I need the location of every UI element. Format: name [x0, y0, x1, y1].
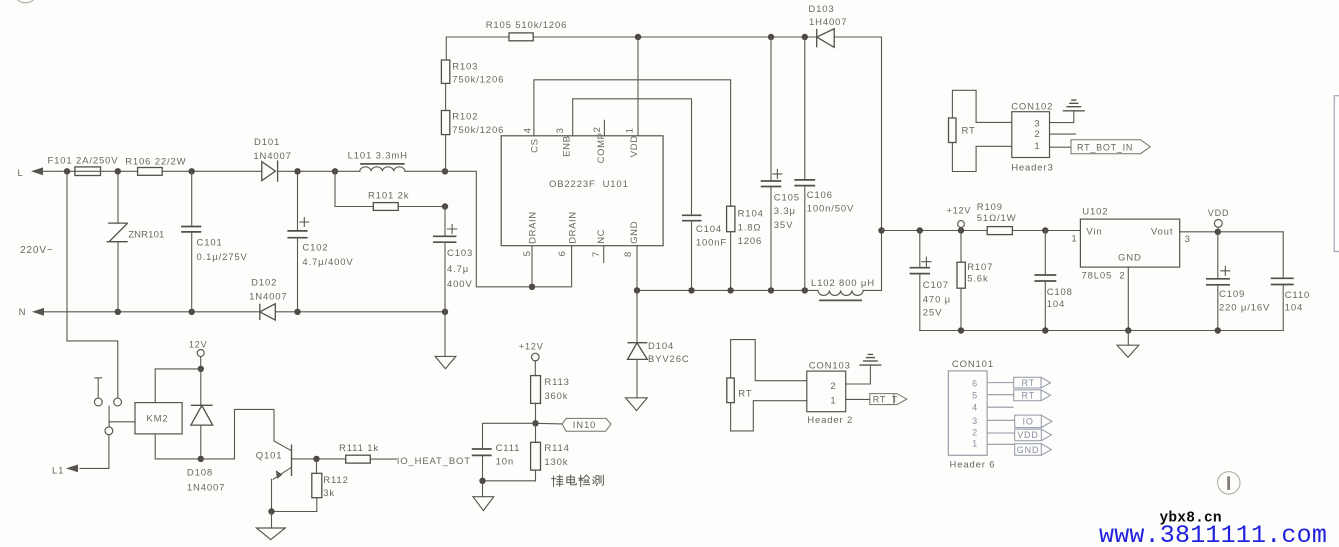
fuse F101 — [75, 167, 101, 176]
svg-text:220V~: 220V~ — [20, 245, 53, 256]
svg-text:R111 1k: R111 1k — [339, 443, 379, 454]
junction bus/pin8-D104 — [634, 287, 640, 293]
svg-text:360k: 360k — [544, 391, 568, 402]
resistor R103 750k/1206 — [441, 60, 449, 83]
svg-text:1: 1 — [1071, 233, 1077, 244]
svg-text:1N4007: 1N4007 — [187, 482, 225, 493]
svg-text:750k/1206: 750k/1206 — [452, 75, 504, 86]
svg-text:R101 2k: R101 2k — [368, 191, 409, 202]
right margin bracket — [1334, 96, 1339, 252]
junction D108 anode node — [198, 456, 204, 462]
svg-text:R114: R114 — [544, 443, 569, 454]
svg-text:R105 510k/1206: R105 510k/1206 — [486, 20, 568, 31]
switch fixed contact right — [114, 398, 122, 406]
junction N/ZNR101 — [115, 309, 121, 315]
resistor R112 3k — [316, 459, 318, 473]
svg-text:CON101: CON101 — [952, 359, 994, 370]
svg-text:DRAIN: DRAIN — [528, 211, 539, 244]
svg-text:1H4007: 1H4007 — [809, 17, 847, 28]
svg-text:C102: C102 — [302, 243, 328, 254]
op-amp U102 78L05 body — [1080, 219, 1179, 267]
svg-text:1N4007: 1N4007 — [253, 151, 291, 162]
svg-text:GND: GND — [1118, 253, 1142, 264]
svg-text:F101 2A/250V: F101 2A/250V — [48, 156, 119, 167]
svg-text:C111: C111 — [496, 443, 521, 454]
ground below C103 — [435, 356, 456, 368]
wire KM2 bottom — [155, 434, 201, 459]
resistor R111 1k — [346, 455, 371, 463]
capacitor C102 4.7u/400V — [297, 171, 299, 231]
net flag IN10 — [562, 418, 611, 431]
svg-text:R112: R112 — [323, 475, 348, 486]
junction bus2/R107 — [958, 327, 964, 333]
wire switch to L1 — [80, 435, 109, 469]
svg-text:1206: 1206 — [738, 236, 763, 247]
svg-text:VDD: VDD — [1208, 208, 1230, 218]
svg-text:100n/50V: 100n/50V — [807, 204, 854, 215]
wire L line segment 4 — [278, 170, 335, 172]
svg-text:104: 104 — [1285, 303, 1303, 314]
wire CON101 pin5 — [987, 394, 1014, 396]
resistor R102 750k/1206 — [441, 111, 449, 135]
resistor R109 51/1W — [987, 227, 1012, 235]
svg-text:N: N — [19, 307, 27, 318]
page frame artifacts (top-left arc) — [13, 0, 38, 3]
wire CON101 pin6 — [987, 382, 1014, 384]
svg-text:R104: R104 — [738, 209, 764, 220]
junction detect ground node — [479, 478, 485, 484]
wire R114 to ground node — [483, 480, 536, 482]
junction N/C101 — [189, 309, 195, 315]
wire CON101 pin3 — [987, 419, 1015, 421]
svg-text:U102: U102 — [1082, 207, 1108, 218]
wire +12V rail seg1 — [882, 230, 988, 232]
svg-text:C101: C101 — [197, 238, 223, 249]
svg-text:D102: D102 — [251, 278, 277, 289]
connector CON102 Header3 — [1012, 112, 1050, 158]
resistor R105 510k/1206 — [509, 33, 533, 41]
svg-text:Q101: Q101 — [256, 451, 283, 462]
junction R101/C103 node — [442, 203, 448, 209]
svg-text:8: 8 — [623, 251, 634, 257]
net flag IO — [1015, 415, 1052, 428]
svg-text:220 μ/16V: 220 μ/16V — [1219, 303, 1270, 314]
svg-text:VDD: VDD — [1017, 430, 1039, 440]
svg-text:2: 2 — [592, 126, 603, 132]
svg-text:R107: R107 — [967, 262, 993, 273]
svg-text:D103: D103 — [808, 4, 834, 15]
svg-text:R113: R113 — [544, 377, 569, 388]
svg-text:12V: 12V — [189, 340, 208, 350]
svg-text:2: 2 — [830, 381, 836, 392]
pin 2 GND wire U102 — [1127, 267, 1129, 330]
diode D103 1N4007 — [816, 29, 818, 48]
svg-text:4.7μ/400V: 4.7μ/400V — [302, 257, 353, 268]
varistor ZNR101 — [117, 171, 119, 223]
pin 2 COMP stub — [603, 120, 605, 136]
svg-text:Header 2: Header 2 — [807, 415, 853, 426]
svg-text:C104: C104 — [696, 224, 722, 235]
svg-text:78L05: 78L05 — [1082, 271, 1113, 282]
connector CON103 Header2 — [807, 371, 846, 412]
svg-text:C109: C109 — [1219, 289, 1245, 300]
wire N line segment 2 — [275, 311, 445, 313]
diode D108 1N4007 — [200, 369, 202, 405]
wire L to switch — [67, 171, 118, 398]
svg-text:3.3μ: 3.3μ — [774, 206, 796, 217]
capacitor C109 220u/16V — [1217, 232, 1219, 279]
svg-text:6: 6 — [557, 250, 568, 256]
svg-text:ENB: ENB — [562, 135, 573, 156]
connector CON101 Header6 — [948, 371, 987, 455]
pin 7 NC stub — [603, 246, 605, 263]
svg-text:CS: CS — [530, 138, 541, 152]
capacitor C106 100n/50V — [804, 37, 806, 180]
diode D104 BYV26C — [636, 290, 638, 342]
svg-text:BYV26C: BYV26C — [648, 354, 690, 365]
junction detect node — [532, 420, 538, 426]
svg-text:Vout: Vout — [1151, 227, 1173, 238]
capacitor C110 104 — [1271, 277, 1294, 279]
ground below Q101 — [271, 512, 273, 529]
capacitor C107 470u/25V — [919, 231, 921, 268]
svg-text:D108: D108 — [187, 467, 213, 478]
svg-text:3k: 3k — [323, 488, 335, 499]
svg-text:4.7μ: 4.7μ — [447, 264, 469, 275]
resistor R114 130k — [535, 423, 537, 442]
svg-text:1N4007: 1N4007 — [249, 292, 287, 303]
svg-text:10n: 10n — [496, 457, 514, 468]
junction L/ZNR101 — [115, 168, 121, 174]
net flag RT pin5 — [1014, 390, 1051, 401]
svg-text:130k: 130k — [544, 457, 568, 468]
svg-text:7: 7 — [591, 251, 602, 257]
wire L line segment 2 — [101, 170, 138, 172]
wire D103 cathode corner — [834, 37, 881, 290]
junction Vout/C109 — [1215, 229, 1221, 235]
junction bus2/C109 — [1215, 327, 1221, 333]
junction 12V node — [198, 366, 204, 372]
svg-text:L102 800 μH: L102 800 μH — [811, 278, 875, 289]
capacitor C105 3.3u/35V — [770, 37, 772, 181]
svg-text:OB2223F U101: OB2223F U101 — [549, 179, 629, 190]
resistor R104 1.8ohm — [727, 206, 735, 232]
junction drain net — [529, 284, 535, 290]
svg-text:3: 3 — [555, 127, 566, 133]
svg-text:L: L — [18, 168, 24, 179]
junction +12V rail corner — [878, 227, 884, 233]
svg-text:4: 4 — [972, 403, 978, 413]
svg-text:D101: D101 — [254, 137, 280, 148]
svg-text:CON102: CON102 — [1011, 102, 1053, 113]
svg-text:C105: C105 — [774, 192, 800, 203]
wire N line segment 1 — [43, 311, 259, 313]
junction rail/C108 — [1042, 227, 1048, 233]
diode D102 1N4007 — [259, 304, 261, 320]
svg-text:NC: NC — [596, 229, 607, 244]
svg-text:400V: 400V — [447, 279, 473, 290]
pin 5 DRAIN wire — [531, 246, 533, 287]
junction N/C102 — [294, 309, 300, 315]
wire CON101 pin2 — [987, 432, 1015, 434]
resistor R106 — [138, 168, 163, 176]
svg-text:RT: RT — [738, 388, 752, 399]
junction bus/C106 — [802, 287, 808, 293]
svg-text:RT: RT — [1022, 378, 1036, 388]
svg-text:IO: IO — [1023, 417, 1034, 427]
junction bus2/U102gnd — [1125, 327, 1131, 333]
capacitor C101 0.1u/275V — [191, 171, 193, 226]
wire L line segment 1 — [42, 170, 75, 172]
transistor Q101 — [291, 445, 293, 477]
resistor R107 5.6k — [960, 231, 962, 263]
wire secondary bottom bus — [920, 330, 1283, 332]
wire gnd bus — [637, 289, 818, 291]
junction emitter node — [268, 508, 274, 514]
wire R113 to node — [535, 403, 537, 423]
svg-text:1: 1 — [972, 439, 978, 449]
svg-text:3: 3 — [972, 416, 978, 426]
svg-text:C108: C108 — [1047, 287, 1073, 298]
wire CON102 pin2 stub — [1050, 133, 1076, 135]
svg-text:R109: R109 — [977, 202, 1003, 213]
relay coil KM2 — [135, 403, 182, 434]
svg-text:C106: C106 — [807, 190, 833, 201]
capacitor C104 100nF — [682, 214, 702, 216]
wire 12V to KM2 — [155, 369, 201, 403]
net flag GND — [1015, 444, 1052, 456]
thermistor RT (CON103) — [731, 340, 807, 381]
svg-text:GND: GND — [1017, 445, 1040, 455]
junction rail/C107 — [917, 227, 923, 233]
net flag RT pin6 — [1014, 377, 1051, 388]
ground below U102 — [1127, 331, 1129, 346]
svg-text:L101 3.3mH: L101 3.3mH — [348, 150, 408, 161]
svg-text:1: 1 — [625, 127, 636, 133]
svg-text:KM2: KM2 — [146, 414, 168, 425]
sheet number circled 1 — [1218, 472, 1240, 494]
junction L/L101/R101 — [332, 168, 338, 174]
junction bus/C104 — [688, 287, 694, 293]
capacitor C103 4.7u/400V — [444, 207, 446, 237]
svg-text:35V: 35V — [774, 220, 793, 231]
junction rail/R107 — [958, 227, 964, 233]
svg-text:2: 2 — [1119, 271, 1125, 282]
svg-text:C110: C110 — [1285, 290, 1310, 301]
node VDD terminal — [1214, 220, 1222, 228]
svg-text:Header 6: Header 6 — [950, 459, 996, 470]
junction rail/VDD pin1 — [635, 34, 641, 40]
svg-text:+12V: +12V — [519, 342, 544, 352]
wire switch to KM2 — [109, 421, 135, 423]
svg-text:5: 5 — [972, 391, 978, 401]
wire top rail left corner — [445, 37, 447, 60]
svg-text:Vin: Vin — [1086, 227, 1102, 238]
wire C103 to ground — [444, 312, 446, 357]
pin 6 DRAIN wire — [532, 246, 572, 287]
svg-text:Header3: Header3 — [1011, 162, 1053, 173]
svg-text:5.6k: 5.6k — [967, 273, 988, 284]
svg-text:RT: RT — [962, 126, 976, 137]
junction rail/C106 — [802, 34, 808, 40]
svg-text:L1: L1 — [52, 465, 64, 476]
wire top rail segment 1 — [446, 36, 509, 38]
svg-text:IO_HEAT_BOT: IO_HEAT_BOT — [397, 456, 471, 467]
junction base/R112 — [313, 456, 319, 462]
svg-text:R102: R102 — [452, 112, 478, 123]
wire R112 to emitter — [272, 511, 317, 513]
wire +12V rail seg2 — [1012, 230, 1080, 232]
svg-text:C103: C103 — [447, 248, 473, 259]
pin 4 CS route to R104 — [534, 80, 731, 206]
switch pole contact — [105, 427, 113, 435]
svg-text:D104: D104 — [648, 341, 674, 352]
svg-text:1.8Ω: 1.8Ω — [738, 222, 762, 233]
thermistor RT (CON102) — [952, 90, 1011, 122]
capacitor C108 104 — [1044, 231, 1046, 276]
junction L/C102 — [294, 168, 300, 174]
diode D101 1N4007 — [262, 162, 276, 181]
svg-text:1: 1 — [1034, 141, 1040, 152]
wire CON101 pin1 — [987, 443, 1015, 445]
net flag RT_BOT_IN — [1071, 140, 1150, 154]
svg-text:6: 6 — [972, 379, 978, 389]
pin 3 ENB route to C104 — [573, 99, 692, 216]
junction bus/C105 — [768, 287, 774, 293]
pin 1 VDD wire — [637, 37, 639, 136]
net flag RT_T — [870, 394, 907, 405]
junction DC bus node — [442, 168, 448, 174]
wire node to C111 — [483, 423, 536, 449]
svg-text:www.3811111.com: www.3811111.com — [1099, 521, 1327, 547]
inductor L102 800uH — [818, 290, 863, 295]
junction bus/R104 — [727, 287, 733, 293]
svg-text:5: 5 — [522, 250, 533, 256]
svg-text:2: 2 — [972, 428, 978, 438]
wire top rail segment 2 — [533, 36, 817, 38]
svg-text:1: 1 — [830, 395, 836, 406]
svg-text:GND: GND — [629, 221, 640, 244]
svg-text:3: 3 — [1185, 234, 1191, 245]
earth ground CON103 — [859, 364, 881, 366]
svg-text:4: 4 — [523, 127, 534, 133]
switch fixed contact left — [94, 398, 102, 406]
svg-text:2: 2 — [1034, 129, 1040, 140]
resistor R101 2k — [335, 171, 373, 206]
svg-text:51Ω/1W: 51Ω/1W — [977, 213, 1017, 224]
svg-text:DRAIN: DRAIN — [567, 211, 578, 244]
svg-text:470 μ: 470 μ — [923, 294, 951, 305]
junction L/switch column — [64, 168, 70, 174]
pin 8 GND wire — [636, 246, 638, 291]
wire to Q101 collector — [201, 409, 274, 459]
wire CON101 pin4 stub — [987, 406, 1014, 408]
junction N/C103-ground — [442, 309, 448, 315]
wire R104 to gnd bus — [730, 232, 732, 291]
svg-text:RT: RT — [1022, 391, 1036, 401]
net flag VDD — [1015, 429, 1052, 441]
node +12V terminal (detect) — [532, 353, 540, 361]
junction bus2/C108 — [1042, 327, 1048, 333]
wire CON103 pin2 to earth — [846, 365, 871, 384]
ground below C111 — [482, 481, 484, 497]
svg-text:100nF: 100nF — [696, 238, 727, 249]
node +12V terminal — [958, 221, 965, 228]
wire R102 to DC bus — [445, 135, 447, 172]
svg-text:RT_T: RT_T — [873, 394, 898, 404]
wire L line segment 3 — [162, 170, 262, 172]
wire node to IN10 — [536, 422, 563, 425]
junction L/C101 — [189, 168, 195, 174]
svg-text:104: 104 — [1047, 299, 1065, 310]
wire R103-R102 — [445, 83, 447, 110]
svg-text:3: 3 — [1034, 119, 1040, 130]
svg-text:750k/1206: 750k/1206 — [452, 125, 504, 136]
svg-text:25V: 25V — [923, 308, 942, 319]
ground below D104 — [626, 398, 648, 411]
wire DC bus to drain corner — [445, 171, 532, 286]
svg-text:CON103: CON103 — [809, 360, 851, 371]
earth ground CON102 — [1063, 110, 1085, 112]
svg-text:0.1μ/275V: 0.1μ/275V — [197, 252, 248, 263]
wire Vout rail — [1180, 232, 1284, 278]
capacitor C111 10n — [472, 448, 492, 450]
label power-fail detect (Chinese) — [552, 475, 564, 487]
svg-text:VDD: VDD — [629, 135, 640, 157]
resistor R113 360k — [531, 376, 541, 404]
svg-text:RT_BOT_IN: RT_BOT_IN — [1077, 142, 1133, 152]
wire CON103 pin1 — [846, 398, 870, 400]
inductor L101 3.3mH — [335, 170, 360, 172]
wire Q101 base — [292, 458, 346, 460]
svg-text:ZNR101: ZNR101 — [128, 229, 164, 240]
node 12V terminal — [197, 350, 204, 357]
svg-text:R106 22/2W: R106 22/2W — [125, 156, 186, 167]
junction rail/C105 — [768, 34, 774, 40]
svg-text:+12V: +12V — [947, 205, 972, 215]
wire CON102 pin3 to earth — [1050, 111, 1074, 123]
svg-text:R103: R103 — [452, 61, 478, 72]
svg-text:IN10: IN10 — [573, 420, 596, 431]
op-amp U101 OB2223F body — [501, 136, 663, 246]
svg-text:COMP: COMP — [596, 132, 607, 163]
wire R111 to IO_HEAT_BOT — [370, 458, 396, 460]
wire CON102 pin1 — [1050, 146, 1072, 148]
svg-text:C107: C107 — [923, 280, 949, 291]
